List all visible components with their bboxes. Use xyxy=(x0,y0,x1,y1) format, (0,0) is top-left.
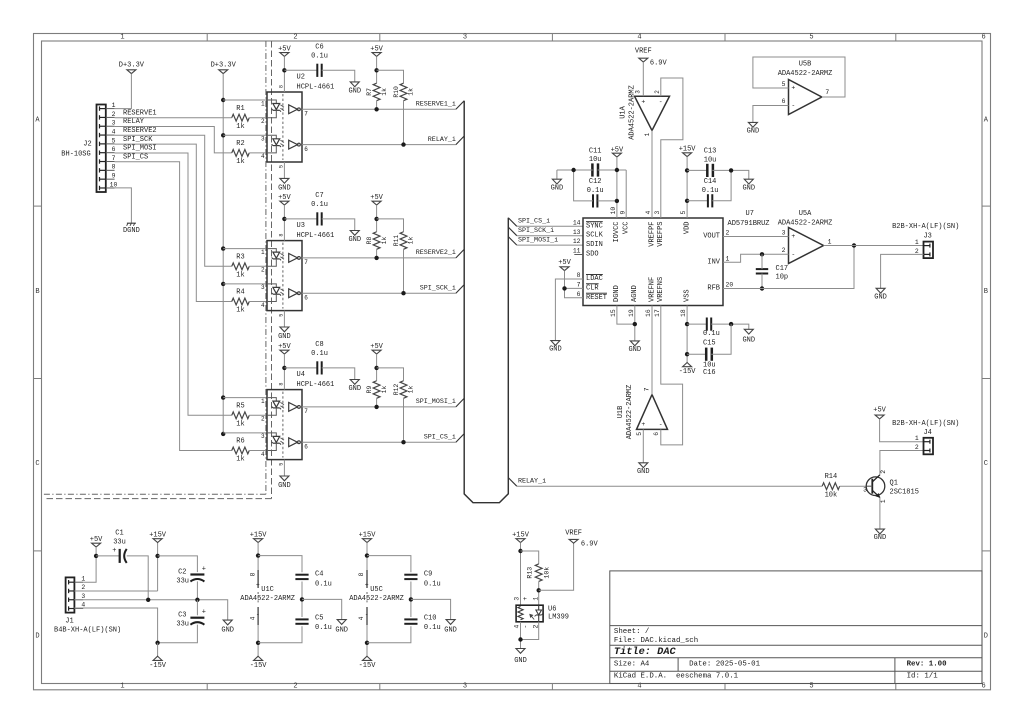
svg-text:VREFPS: VREFPS xyxy=(657,222,665,247)
svg-text:C12: C12 xyxy=(589,178,602,186)
svg-text:RESERVE1_i: RESERVE1_i xyxy=(416,101,456,109)
junction xyxy=(401,142,405,146)
svg-text:3: 3 xyxy=(654,211,661,215)
svg-text:10p: 10p xyxy=(776,274,789,282)
svg-text:Id: 1/1: Id: 1/1 xyxy=(907,672,939,680)
svg-text:8: 8 xyxy=(278,234,284,237)
junction xyxy=(562,286,566,290)
svg-text:33u: 33u xyxy=(113,538,126,546)
capacitor C15 0.1u xyxy=(687,323,707,325)
wire pin 5 to GND xyxy=(283,460,285,476)
wire C15 right to GND xyxy=(711,324,749,329)
U7 pin 11 SDO stub xyxy=(574,254,583,256)
resistor R6 xyxy=(232,447,250,454)
wire R9 to output xyxy=(376,398,378,407)
svg-text:R13: R13 xyxy=(527,567,534,579)
svg-text:GND: GND xyxy=(514,657,527,665)
wire C11/C12 left to GND xyxy=(557,169,593,171)
optocoupler U2 HCPL-4661 xyxy=(267,92,302,162)
wire C2 to GND line xyxy=(196,581,198,599)
svg-text:B4B-XH-A(LF)(SN): B4B-XH-A(LF)(SN) xyxy=(54,627,121,635)
svg-text:5: 5 xyxy=(278,463,284,466)
svg-text:R12: R12 xyxy=(393,384,400,396)
svg-text:+5V: +5V xyxy=(370,343,383,351)
U3 inverter xyxy=(289,289,298,298)
wire output 7 net RESERVE2_i xyxy=(302,257,456,259)
svg-text:GND: GND xyxy=(742,337,755,345)
ground GND (opto) xyxy=(280,327,289,332)
svg-text:R5: R5 xyxy=(236,403,244,411)
wire R14 to Q1 base xyxy=(840,485,867,487)
svg-text:ADA4522-2ARMZ: ADA4522-2ARMZ xyxy=(240,595,295,603)
wire SPI_SCK J2.5 to R4 xyxy=(115,144,232,301)
ground GND (C15) xyxy=(744,329,753,334)
wire Q1 emitter to GND xyxy=(879,498,881,530)
svg-text:3: 3 xyxy=(863,486,867,493)
op-amp U1A ADA4522-2ARMZ xyxy=(635,96,670,130)
resistor R1 xyxy=(232,114,250,121)
svg-text:+5V: +5V xyxy=(278,343,291,351)
svg-text:B: B xyxy=(984,288,988,296)
wire pin 5 to GND xyxy=(283,162,285,178)
svg-text:+: + xyxy=(791,233,795,240)
wire R1 to pin2 xyxy=(249,117,267,119)
title block xyxy=(610,571,982,684)
svg-text:-15V: -15V xyxy=(359,662,377,670)
svg-text:5: 5 xyxy=(278,314,284,317)
power -15V (U5C) xyxy=(363,656,372,660)
wire anode pin1 xyxy=(223,248,267,250)
svg-text:2: 2 xyxy=(261,267,265,274)
junction xyxy=(221,282,225,286)
wire SPI_MOSI J2.6 to R5 xyxy=(115,153,232,415)
svg-text:RESERVE2: RESERVE2 xyxy=(123,127,157,135)
svg-text:VREFNS: VREFNS xyxy=(657,277,665,302)
svg-text:7: 7 xyxy=(825,89,829,96)
svg-text:7: 7 xyxy=(644,387,651,391)
ground GND (U1C) xyxy=(337,620,346,625)
svg-text:SPI_SCK: SPI_SCK xyxy=(123,136,153,144)
power -15V (J1) xyxy=(157,643,159,656)
svg-text:1k: 1k xyxy=(408,386,415,394)
svg-text:KiCad E.D.A. eeschema 7.0.1: KiCad E.D.A. eeschema 7.0.1 xyxy=(614,672,739,680)
wire anode pin3 xyxy=(223,432,267,434)
wire LDAC to GND xyxy=(555,279,583,341)
svg-text:BH-10SG: BH-10SG xyxy=(61,150,90,158)
power +5V (pullups) xyxy=(372,201,381,205)
connector J2 BH-10SG xyxy=(97,105,106,193)
svg-text:RELAY_i: RELAY_i xyxy=(518,478,546,486)
wire +5V to pin 8 xyxy=(283,354,285,390)
wire J3 pin2 to GND xyxy=(881,254,924,288)
U2 isolation barrier xyxy=(282,94,284,160)
svg-text:LDAC: LDAC xyxy=(586,275,603,283)
svg-text:1: 1 xyxy=(915,435,919,442)
svg-text:SPI_CS: SPI_CS xyxy=(123,154,148,162)
wire VREF to U1A pin3 xyxy=(642,62,644,96)
U3 isolation barrier xyxy=(282,243,284,309)
svg-text:C2: C2 xyxy=(178,569,186,577)
svg-text:5: 5 xyxy=(112,137,116,144)
svg-text:8: 8 xyxy=(358,572,365,576)
ground GND (J1) xyxy=(223,620,232,625)
capacitor C3 33u xyxy=(190,617,204,619)
svg-text:INV: INV xyxy=(707,258,720,266)
ground GND (Q1) xyxy=(875,529,884,534)
capacitor C11 10u xyxy=(591,163,594,176)
svg-text:+15V: +15V xyxy=(512,531,530,539)
svg-text:C7: C7 xyxy=(315,192,323,200)
wire anode pin1 xyxy=(223,397,267,399)
svg-text:1k: 1k xyxy=(408,237,415,245)
wire J1 pin2 (+15V) xyxy=(74,590,157,592)
svg-text:+: + xyxy=(112,547,116,555)
U2 inverter xyxy=(289,140,298,149)
wire to second pullup xyxy=(377,368,404,381)
svg-text:SPI_MOSI: SPI_MOSI xyxy=(123,145,157,153)
wire output 7 net SPI_MOSI_i xyxy=(302,406,456,408)
junction xyxy=(685,168,689,172)
junction xyxy=(94,554,98,558)
svg-text:0.1u: 0.1u xyxy=(315,580,332,588)
power -15V (U1C) xyxy=(254,656,263,660)
connector J1 B4B-XH-A(LF)(SN) xyxy=(66,577,75,612)
U4 LED xyxy=(267,398,276,402)
svg-text:-: - xyxy=(659,421,663,428)
svg-text:+: + xyxy=(202,609,206,617)
ground GND (LDAC) xyxy=(551,341,560,346)
svg-text:R2: R2 xyxy=(236,140,244,148)
svg-text:+5V: +5V xyxy=(90,536,103,544)
wire C13/C14 right to GND xyxy=(712,170,731,200)
capacitor C4 0.1u xyxy=(258,556,302,573)
wire +15V to U6 pin3 xyxy=(520,543,522,606)
wire SPI_CS_i to SYNC xyxy=(517,225,583,227)
svg-text:AD5791BRUZ: AD5791BRUZ xyxy=(728,220,770,228)
junction xyxy=(374,256,378,260)
svg-text:0.1u: 0.1u xyxy=(424,624,441,632)
wire C7 to GND xyxy=(322,219,355,231)
wire C11 right xyxy=(598,169,627,171)
svg-text:GND: GND xyxy=(874,294,887,302)
optocoupler U3 HCPL-4661 xyxy=(267,241,302,311)
svg-text:6.9V: 6.9V xyxy=(650,60,668,68)
wire +5V to CLR and RESET xyxy=(565,271,584,298)
svg-text:1: 1 xyxy=(828,238,832,245)
junction xyxy=(282,366,286,370)
svg-text:1k: 1k xyxy=(381,386,388,394)
U3 emission arrows xyxy=(280,253,284,255)
svg-text:U2: U2 xyxy=(297,74,305,82)
svg-text:DGND: DGND xyxy=(123,227,140,235)
svg-text:+: + xyxy=(202,565,206,573)
wire +15V rail xyxy=(157,543,159,592)
svg-text:9: 9 xyxy=(619,211,626,215)
power +5V (opto) xyxy=(280,53,289,57)
svg-text:Size: A4: Size: A4 xyxy=(614,660,650,668)
junction xyxy=(852,243,856,247)
svg-text:2: 2 xyxy=(782,247,786,254)
bus entry SPI_MOSI_i xyxy=(456,398,464,407)
svg-text:C8: C8 xyxy=(315,341,323,349)
svg-text:U1B: U1B xyxy=(617,406,625,419)
wire U6 pin2/pin4 to GND xyxy=(521,622,539,640)
wire R7 to output xyxy=(376,101,378,110)
junction xyxy=(300,597,304,601)
svg-text:-15V: -15V xyxy=(250,662,268,670)
capacitor C8 0.1u xyxy=(284,367,317,369)
wire R4 to pin4 xyxy=(249,301,267,303)
svg-text:6: 6 xyxy=(782,98,786,105)
svg-text:VOUT: VOUT xyxy=(703,233,720,241)
svg-text:1: 1 xyxy=(120,33,124,41)
svg-text:GND: GND xyxy=(278,185,291,193)
svg-text:U5C: U5C xyxy=(370,586,383,594)
svg-text:GND: GND xyxy=(874,534,887,542)
wire +5V pullups xyxy=(376,205,378,232)
svg-text:HCPL-4661: HCPL-4661 xyxy=(297,84,335,92)
svg-text:2: 2 xyxy=(880,470,887,474)
wire Q1 collector to J4 pin2 xyxy=(880,451,924,475)
svg-text:19: 19 xyxy=(628,309,635,317)
wire +15V rail U1C xyxy=(257,543,259,571)
wire U1A feedback to pin2 xyxy=(661,78,683,218)
svg-text:Date: 2025-05-01: Date: 2025-05-01 xyxy=(689,660,761,668)
svg-text:10: 10 xyxy=(610,207,617,215)
svg-text:5: 5 xyxy=(636,432,643,436)
power +5V (VCC) xyxy=(612,153,621,157)
svg-text:2: 2 xyxy=(261,118,265,125)
svg-text:2: 2 xyxy=(112,111,116,118)
svg-text:D: D xyxy=(35,632,39,640)
ground GND (opto) xyxy=(280,476,289,481)
dashed separator line xyxy=(271,41,273,499)
svg-text:GND: GND xyxy=(549,345,562,353)
svg-text:-: - xyxy=(791,251,795,258)
svg-text:0.1u: 0.1u xyxy=(587,187,604,195)
wire C12 right xyxy=(598,200,617,202)
svg-text:B2B-XH-A(LF)(SN): B2B-XH-A(LF)(SN) xyxy=(892,420,959,428)
svg-text:+15V: +15V xyxy=(149,531,167,539)
svg-text:C15: C15 xyxy=(703,339,716,347)
svg-text:7: 7 xyxy=(112,155,116,162)
svg-text:2: 2 xyxy=(726,230,730,237)
wire mid to GND (U1C) xyxy=(302,599,342,619)
svg-text:6: 6 xyxy=(112,146,116,153)
ground GND (opto) xyxy=(280,178,289,183)
svg-text:VREF: VREF xyxy=(635,47,652,55)
svg-text:C17: C17 xyxy=(776,265,789,273)
power +5V (pullups) xyxy=(372,350,381,354)
svg-text:6: 6 xyxy=(981,33,985,41)
svg-text:RFB: RFB xyxy=(707,285,720,293)
svg-text:D+3.3V: D+3.3V xyxy=(119,62,145,70)
svg-text:C5: C5 xyxy=(315,614,323,622)
ground GND (C13) xyxy=(744,179,753,184)
svg-text:HCPL-4661: HCPL-4661 xyxy=(297,232,335,240)
svg-text:6: 6 xyxy=(304,295,308,302)
bus entry RELAY_i xyxy=(456,136,464,145)
svg-text:1: 1 xyxy=(726,255,730,262)
power +5V (opto) xyxy=(280,201,289,205)
svg-text:1: 1 xyxy=(533,597,540,601)
svg-text:4: 4 xyxy=(514,625,521,629)
svg-text:VREF: VREF xyxy=(565,530,582,538)
svg-text:R9: R9 xyxy=(366,386,373,394)
wire +5V to J4 pin1 xyxy=(880,419,924,442)
svg-text:GND: GND xyxy=(628,346,641,354)
op-amp U5B ADA4522-2ARMZ xyxy=(789,80,822,115)
wire +5V pullups xyxy=(376,354,378,381)
svg-text:7: 7 xyxy=(304,259,308,266)
bus trunk xyxy=(464,101,508,503)
ground GND (U1B) xyxy=(639,463,648,468)
svg-text:+: + xyxy=(641,421,645,428)
power +5V (CLR/RESET) xyxy=(560,267,569,271)
svg-text:ADA4522-2ARMZ: ADA4522-2ARMZ xyxy=(778,219,833,227)
junction xyxy=(760,252,764,256)
svg-text:-15V: -15V xyxy=(679,368,697,376)
wire J2 pin10 to DGND xyxy=(115,188,132,223)
power D+3.3V (J2) xyxy=(127,70,136,74)
svg-text:10k: 10k xyxy=(825,491,838,499)
svg-text:4: 4 xyxy=(645,211,652,215)
svg-text:C14: C14 xyxy=(704,178,717,186)
svg-text:SPI_MOSI_i: SPI_MOSI_i xyxy=(416,398,456,406)
svg-text:1k: 1k xyxy=(236,272,244,280)
wire RELAY J2.3 to R2 xyxy=(115,127,232,153)
bus entry SPI_SCK_i xyxy=(456,285,464,294)
svg-text:Rev: 1.00: Rev: 1.00 xyxy=(907,660,947,668)
resistor R13 10k xyxy=(535,564,542,582)
svg-text:VREFNF: VREFNF xyxy=(648,277,656,302)
junction xyxy=(146,598,150,602)
svg-text:2: 2 xyxy=(915,248,919,255)
optocoupler U4 HCPL-4661 xyxy=(267,390,302,460)
junction xyxy=(729,322,733,326)
junction xyxy=(374,107,378,111)
wire C17 xyxy=(761,254,763,269)
svg-text:R14: R14 xyxy=(825,473,838,481)
svg-text:3: 3 xyxy=(261,136,265,143)
junction xyxy=(221,133,225,137)
svg-text:1k: 1k xyxy=(236,456,244,464)
svg-text:B: B xyxy=(35,288,39,296)
power +5V (opto) xyxy=(280,350,289,354)
svg-text:17: 17 xyxy=(654,309,661,317)
junction xyxy=(409,597,413,601)
wire pin 5 to GND xyxy=(283,311,285,327)
svg-text:10u: 10u xyxy=(704,156,717,164)
svg-text:-: - xyxy=(791,102,795,109)
svg-text:20: 20 xyxy=(726,282,734,289)
wire C3 xyxy=(196,600,198,616)
bus entry RELAY_i out xyxy=(508,478,517,487)
svg-text:4: 4 xyxy=(249,616,256,620)
power VREF 6.9V (U6) xyxy=(569,539,578,543)
svg-text:SDO: SDO xyxy=(586,251,599,259)
wire RFB feedback xyxy=(723,246,854,289)
svg-text:8: 8 xyxy=(249,572,256,576)
wire output 6 net SPI_SCK_i xyxy=(302,292,456,294)
svg-text:1: 1 xyxy=(261,249,265,256)
svg-text:ADA4522-2ARMZ: ADA4522-2ARMZ xyxy=(626,385,634,440)
junction xyxy=(221,395,225,399)
wire VCC pin9 xyxy=(625,170,627,218)
wire J1 pin1 to +5V xyxy=(83,556,96,582)
svg-text:U4: U4 xyxy=(297,371,305,379)
svg-text:+5V: +5V xyxy=(278,45,291,53)
junction xyxy=(155,641,159,645)
svg-text:C11: C11 xyxy=(589,147,602,155)
bus entry SPI_CS_i xyxy=(456,434,464,443)
resistor R7 1k xyxy=(373,83,380,101)
svg-text:+5V: +5V xyxy=(558,259,571,267)
bus entry RESERVE1_i xyxy=(456,101,464,110)
op-amp U1B ADA4522-2ARMZ xyxy=(637,395,668,430)
U6 arrow xyxy=(530,614,534,619)
svg-text:3: 3 xyxy=(463,33,467,41)
power VREF 6.9V (U1A) xyxy=(639,58,648,62)
bus entry SPI_MOSI_i to DAC xyxy=(508,237,517,246)
wire SPI_MOSI_i to SDIN xyxy=(517,244,583,246)
wire output 6 net RELAY_i xyxy=(302,144,456,146)
svg-text:D+3.3V: D+3.3V xyxy=(211,62,237,70)
wire RELAY_i to R14 xyxy=(517,485,822,487)
resistor R9 1k xyxy=(373,381,380,399)
wire J2 pin1 to D+3.3V xyxy=(115,74,132,109)
svg-text:+: + xyxy=(522,597,529,601)
svg-text:4: 4 xyxy=(358,616,365,620)
svg-text:VREFPF: VREFPF xyxy=(648,222,656,247)
svg-text:R8: R8 xyxy=(366,237,373,245)
svg-text:GND: GND xyxy=(742,184,755,192)
svg-text:+: + xyxy=(256,582,260,589)
U2 LED xyxy=(267,135,276,139)
svg-text:1k: 1k xyxy=(236,158,244,166)
svg-text:C1: C1 xyxy=(115,530,123,538)
svg-text:-: - xyxy=(365,611,369,618)
capacitor C9 0.1u xyxy=(367,556,411,573)
svg-text:+15V: +15V xyxy=(679,145,697,153)
svg-text:GND: GND xyxy=(348,236,361,244)
svg-text:U5A: U5A xyxy=(799,210,812,218)
wire +5V to pin 8 xyxy=(283,56,285,92)
wire RESERVE1 J2.2 to R1 xyxy=(115,117,232,119)
svg-text:ADA4522-2ARMZ: ADA4522-2ARMZ xyxy=(349,595,404,603)
svg-text:2: 2 xyxy=(261,416,265,423)
svg-text:9: 9 xyxy=(112,173,116,180)
wire R3 to pin2 xyxy=(249,265,267,267)
wire U5B output feedback loop xyxy=(753,57,845,97)
svg-text:-: - xyxy=(256,611,260,618)
capacitor C2 33u xyxy=(190,573,204,575)
svg-text:2: 2 xyxy=(915,444,919,451)
wire SPI_SCK_i to SCLK xyxy=(517,235,583,237)
svg-text:3: 3 xyxy=(261,433,265,440)
svg-text:J4: J4 xyxy=(923,429,931,437)
ground GND (J3) xyxy=(876,288,885,293)
wire anode pin3 xyxy=(223,134,267,136)
svg-text:1: 1 xyxy=(880,499,887,503)
U4 inverter xyxy=(289,438,298,447)
wire C6 to GND xyxy=(322,70,355,82)
svg-text:+: + xyxy=(791,85,795,92)
svg-text:VCC: VCC xyxy=(623,222,631,235)
wire U5A output to J3 xyxy=(824,245,924,247)
capacitor C17 10p xyxy=(756,268,768,270)
connector J4 B2B-XH-A(LF)(SN) xyxy=(924,438,934,455)
